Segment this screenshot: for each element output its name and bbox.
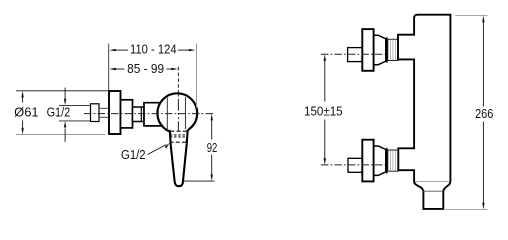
svg-text:G1/2: G1/2 — [47, 105, 71, 119]
dimension 266 — [446, 16, 488, 210]
dimension 85-99 — [109, 68, 178, 70]
node centerline bottom inlet — [321, 164, 386, 166]
bottom threaded nipple — [388, 150, 398, 171]
body bottom face thin line — [415, 181, 450, 183]
hidden thread dashes on spout neck — [170, 131, 188, 142]
nozzle top face thin line — [424, 190, 444, 192]
dimension 150+-15 — [324, 54, 326, 165]
svg-text:150±15: 150±15 — [304, 105, 343, 119]
bottom inlet stub pipe — [348, 158, 362, 172]
node centerline top inlet — [321, 53, 386, 55]
svg-text:G1/2: G1/2 — [121, 148, 146, 162]
dimension D61 arrows — [16, 91, 108, 135]
svg-text:266: 266 — [475, 107, 493, 121]
bottom union nut flange — [386, 148, 388, 174]
mixer body (front view) with inlet bosses and outlet nozzle — [398, 15, 450, 209]
wire supply pipe lines (G1/2 extension lines) — [59, 105, 91, 121]
cartridge dome silhouette lines — [167, 97, 185, 131]
escutcheon (left view) — [109, 91, 121, 134]
node centerline horizontal (left view) — [84, 113, 214, 115]
wire extension line right of 110-124 — [196, 44, 198, 108]
svg-text:110 - 124: 110 - 124 — [130, 43, 177, 57]
wire extension line left (wall plane) — [108, 44, 110, 91]
bottom escutcheon (front view) — [362, 140, 373, 182]
svg-text:92: 92 — [207, 141, 218, 155]
spout / handle pointing down — [170, 129, 188, 186]
top escutcheon (front view) — [362, 29, 373, 71]
top threaded nipple — [388, 39, 398, 60]
top S-union cone — [374, 35, 386, 64]
valve inlet body — [144, 103, 166, 126]
dimension 92 — [183, 114, 215, 181]
wire dashed extension of 85-99 down to head — [177, 67, 179, 93]
bottom S-union cone — [374, 146, 386, 175]
threaded nipple G1/2 — [133, 107, 145, 122]
coupling block on supply pipe — [91, 104, 100, 122]
step block behind valve — [121, 100, 133, 128]
dimension G1/2 inlet arrows — [64, 88, 66, 142]
top inlet stub pipe — [348, 48, 363, 62]
svg-text:Ø61: Ø61 — [14, 105, 39, 119]
svg-text:85 - 99: 85 - 99 — [127, 62, 164, 76]
op head circle (valve head) — [157, 93, 197, 133]
dimension 110-124 — [109, 49, 195, 51]
top union nut flange — [386, 37, 388, 63]
wire pipe to escutcheon — [99, 108, 109, 117]
node centerline vertical through head — [177, 95, 179, 133]
